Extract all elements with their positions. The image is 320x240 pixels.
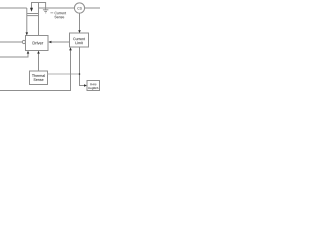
deglitch label line1 [90,83,96,85]
wire mid rail [39,7,75,9]
wire current limit to driver [51,41,69,43]
arrow into deglitch box [84,84,87,87]
label CS [77,7,81,9]
wire OUT rail right [84,7,100,9]
wire gnd rail to current limit [0,50,71,90]
wire source vertical [38,3,40,36]
label driver [33,41,44,44]
thermal sense label line1 [32,74,45,77]
wire CS to current limit [79,13,81,31]
arrow CS into current limit top [78,30,81,33]
label leader dash [50,12,53,14]
node junction thermal fault [79,73,81,75]
box U3 thermal sense [30,71,48,85]
wire UVLO input [0,53,28,57]
box U4 deglitch [87,81,100,91]
current sense circle CS [74,3,84,13]
arrow body into channel [30,8,33,12]
current sense label line1 [55,12,66,14]
wire body bridge [32,3,46,10]
current limit label line1 [73,38,85,41]
arrow current limit into driver [48,41,51,44]
box U1 driver [26,36,49,51]
bubble EN inverter [22,40,25,43]
wire IN rail left [0,7,27,9]
wire current limit to deglitch [80,47,85,86]
ground G1 [43,9,49,11]
wire thermal to driver [38,53,40,71]
current sense label line2 [55,16,65,18]
wire drain tab and gate vertical [26,8,28,33]
arrow gnd into current limit bottom [69,47,72,50]
transistor Q1 channel bar [27,13,39,15]
arrow gate into driver top [26,32,29,35]
transistor Q1 gate bar [27,15,39,17]
thermal sense label line2 [34,78,44,81]
arrow thermal into driver bottom [37,51,40,54]
wire thermal sense out [48,73,80,75]
arrow UVLO into driver bottom [27,51,30,54]
current limit label line2 [75,41,82,44]
box U2 current limit [70,33,89,47]
wire EN input [0,41,22,43]
deglitch label line2 [88,87,98,90]
